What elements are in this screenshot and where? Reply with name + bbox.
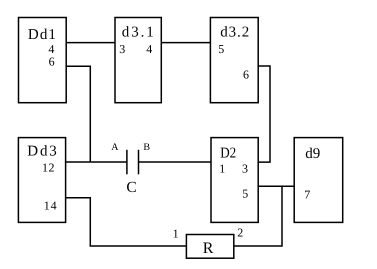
svg-text:12: 12 <box>42 160 55 174</box>
svg-text:1: 1 <box>173 226 179 240</box>
svg-text:7: 7 <box>304 187 310 201</box>
svg-text:Dd1: Dd1 <box>28 27 56 43</box>
resistor R <box>186 235 233 259</box>
wire d3.1 pin4 to d3.2 pin5 <box>161 42 210 44</box>
svg-text:4: 4 <box>146 42 152 56</box>
wire resistor node 2 up to D2-d9 net <box>234 186 282 246</box>
wire d3.2 pin6 down to D2 pin3 <box>258 66 270 162</box>
block d9 <box>294 138 343 223</box>
svg-text:6: 6 <box>49 55 55 69</box>
block Dd1 <box>19 18 67 103</box>
wire Dd1 pin6 down to node A row <box>66 66 90 162</box>
svg-text:d9: d9 <box>305 146 320 162</box>
block D2 <box>211 138 258 223</box>
svg-text:R: R <box>203 240 214 257</box>
block Dd3 <box>18 138 65 223</box>
svg-text:6: 6 <box>243 67 249 81</box>
wire capacitor plate B to D2 pin1 <box>139 161 212 163</box>
capacitor C <box>127 150 139 175</box>
svg-text:A: A <box>111 142 119 153</box>
svg-text:d3.1: d3.1 <box>122 25 154 41</box>
svg-text:D2: D2 <box>220 146 236 162</box>
svg-text:3: 3 <box>242 162 248 176</box>
svg-text:d3.2: d3.2 <box>220 25 249 41</box>
svg-text:5: 5 <box>218 42 224 56</box>
svg-text:5: 5 <box>242 187 248 201</box>
wire D2 pin5 to d9 pin7 <box>258 185 294 187</box>
block d3.1 <box>115 18 161 103</box>
wire Dd1 pin4 to d3.1 pin3 <box>66 42 115 44</box>
svg-text:1: 1 <box>219 162 225 176</box>
svg-text:14: 14 <box>44 198 58 212</box>
svg-text:3: 3 <box>119 42 125 56</box>
svg-text:C: C <box>126 179 136 196</box>
wire Dd3 pin12 to capacitor plate A <box>66 161 127 163</box>
svg-text:B: B <box>143 142 150 153</box>
block d3.2 <box>210 18 258 103</box>
svg-text:Dd3: Dd3 <box>27 144 57 160</box>
wire Dd3 pin14 down to resistor node 1 <box>66 198 187 246</box>
svg-text:2: 2 <box>237 226 243 240</box>
